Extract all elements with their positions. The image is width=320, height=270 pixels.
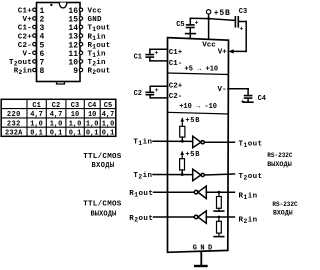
wire to C3 [209, 19, 234, 21]
table row labels [5, 111, 23, 138]
wire C3 to V+ [245, 22, 247, 52]
pin numbers 16-9 [68, 7, 78, 76]
wire T2in [153, 174, 193, 176]
svg-text:T1in: T1in [88, 51, 107, 60]
svg-text:R2in: R2in [239, 216, 258, 225]
ground bar [195, 265, 206, 267]
svg-text:C2: C2 [134, 90, 142, 98]
capacitor C5 [189, 18, 191, 24]
wire V- to C4 [228, 88, 248, 90]
svg-text:GND: GND [88, 16, 103, 24]
divider charge pump 2 [168, 112, 229, 114]
svg-text:TTL/CMOS: TTL/CMOS [83, 153, 122, 161]
svg-text:ВЫХОДЫ: ВЫХОДЫ [91, 211, 117, 219]
inverter R2 [194, 215, 198, 219]
svg-text:C2+: C2+ [18, 33, 33, 41]
wire T1out [204, 141, 234, 143]
pull-up resistor R T2 with +5V arrow [181, 152, 183, 158]
svg-text:4,7: 4,7 [50, 111, 63, 119]
arrowhead into V+ [229, 49, 234, 53]
svg-text:TTL/CMOS: TTL/CMOS [83, 201, 122, 209]
IC U1 MAX232 DIP-16 body [37, 3, 81, 82]
svg-text:+5В: +5В [185, 117, 200, 125]
right pin labels pins 16-9 [88, 8, 111, 77]
svg-text:T1in: T1in [133, 138, 152, 147]
capacitor C1 [150, 48, 168, 50]
capacitor C4 [247, 89, 249, 95]
inverter R1 [194, 190, 198, 194]
svg-text:T2out: T2out [9, 59, 32, 68]
svg-text:C1: C1 [134, 54, 142, 62]
resistor R1in load [218, 192, 220, 196]
svg-text:9: 9 [73, 67, 78, 76]
wire R1out [154, 191, 195, 193]
svg-text:1,0: 1,0 [50, 120, 63, 128]
svg-text:C2-: C2- [169, 93, 183, 101]
pin-1 dot [50, 4, 52, 6]
svg-text:0,1: 0,1 [102, 130, 115, 138]
svg-text:Vcc: Vcc [202, 42, 216, 50]
bottom tab [57, 82, 65, 84]
table values row MAX232A [30, 130, 114, 138]
svg-text:C1-: C1- [18, 25, 32, 33]
wire to C5 [190, 17, 208, 19]
svg-text:232: 232 [7, 120, 21, 128]
svg-text:10: 10 [71, 111, 79, 119]
svg-text:C4: C4 [258, 95, 266, 103]
svg-text:Vcc: Vcc [88, 8, 103, 16]
pin circles left (pins 1-8) [33, 8, 36, 72]
ground stub [200, 252, 202, 266]
svg-text:C2+: C2+ [169, 83, 183, 91]
svg-text:RS-232C: RS-232C [272, 201, 298, 208]
svg-text:0,1: 0,1 [69, 130, 82, 138]
svg-text:C1-: C1- [169, 60, 183, 68]
node junction [207, 17, 210, 20]
svg-text:C1: C1 [32, 102, 40, 110]
svg-text:T2out: T2out [239, 173, 263, 182]
svg-text:1,0: 1,0 [69, 120, 82, 128]
left pin labels pins 1-8 [9, 8, 32, 77]
svg-text:T1out: T1out [88, 25, 111, 34]
inverter T1 [193, 136, 201, 148]
inverter T2 [193, 169, 201, 181]
svg-text:+: + [195, 19, 199, 26]
svg-text:10: 10 [88, 111, 96, 119]
+5V terminal [206, 10, 210, 14]
svg-text:R1out: R1out [129, 190, 153, 199]
pull-up resistor R T1 with +5V arrow [181, 119, 183, 126]
svg-text:C3: C3 [71, 102, 79, 110]
svg-text:T2in: T2in [88, 59, 107, 68]
svg-text:ВХОДЫ: ВХОДЫ [273, 210, 293, 217]
wire terminal to Vcc [208, 14, 210, 38]
svg-text:+5В: +5В [214, 9, 231, 18]
svg-text:C4: C4 [88, 102, 96, 110]
svg-text:V+: V+ [22, 16, 32, 24]
svg-text:8: 8 [40, 67, 45, 76]
svg-text:232A: 232A [5, 130, 23, 138]
table values row MAX232 [30, 120, 114, 128]
svg-text:R1in: R1in [239, 192, 258, 201]
svg-text:0,1: 0,1 [30, 130, 43, 138]
wire T2out [204, 174, 234, 175]
svg-text:1,0: 1,0 [30, 120, 43, 128]
svg-text:V+: V+ [218, 48, 228, 56]
svg-text:4,7: 4,7 [30, 111, 43, 119]
svg-text:T1out: T1out [239, 141, 263, 150]
main block outline [168, 38, 229, 253]
svg-text:C5: C5 [104, 102, 112, 110]
wire R1in [206, 191, 234, 193]
wire R2out [154, 216, 195, 218]
svg-text:C3: C3 [239, 8, 247, 16]
svg-text:+: + [239, 25, 243, 32]
svg-text:T2in: T2in [133, 172, 152, 181]
pin numbers 1-8 [40, 7, 45, 76]
svg-text:+: + [155, 87, 159, 94]
resistor R2in load [218, 217, 220, 221]
svg-text:220: 220 [7, 111, 21, 119]
svg-text:1,0: 1,0 [86, 120, 99, 128]
svg-text:ВЫХОДЫ: ВЫХОДЫ [267, 161, 291, 169]
svg-text:V-: V- [217, 86, 226, 94]
capacitor C2 [150, 85, 167, 87]
svg-text:0,1: 0,1 [50, 130, 63, 138]
svg-text:+5 → +10: +5 → +10 [185, 66, 219, 74]
svg-text:RS-232C: RS-232C [267, 152, 293, 159]
table header C1..C5 [32, 102, 112, 110]
svg-text:+: + [154, 49, 158, 56]
svg-text:+10 → -10: +10 → -10 [179, 103, 217, 111]
svg-text:C1+: C1+ [18, 8, 33, 16]
svg-text:V-: V- [22, 51, 32, 59]
table values row MAX220 [30, 111, 114, 119]
svg-text:0,1: 0,1 [86, 130, 99, 138]
svg-text:R2in: R2in [14, 68, 33, 77]
svg-text:ВХОДЫ: ВХОДЫ [92, 162, 115, 170]
svg-text:+: + [241, 99, 245, 106]
svg-text:4,7: 4,7 [102, 111, 115, 119]
divider charge pump 1 [168, 73, 229, 75]
wire T1in [153, 140, 193, 142]
notch top center [59, 3, 67, 8]
svg-text:R1out: R1out [88, 42, 111, 51]
svg-text:R1in: R1in [88, 33, 107, 42]
svg-text:1,0: 1,0 [102, 120, 115, 128]
wire R2in [206, 216, 234, 218]
svg-text:R2out: R2out [88, 68, 111, 77]
svg-text:C1+: C1+ [169, 49, 183, 57]
svg-text:R2out: R2out [129, 215, 153, 224]
svg-text:+5В: +5В [185, 151, 200, 159]
svg-text:C2: C2 [52, 102, 60, 110]
svg-text:C5: C5 [176, 21, 184, 29]
pin circles right (pins 16-9) [79, 8, 82, 72]
svg-text:C2-: C2- [18, 42, 32, 50]
svg-text:GND: GND [193, 244, 216, 252]
capacitor value table grid [1, 99, 116, 136]
capacitor C3 [234, 17, 236, 27]
